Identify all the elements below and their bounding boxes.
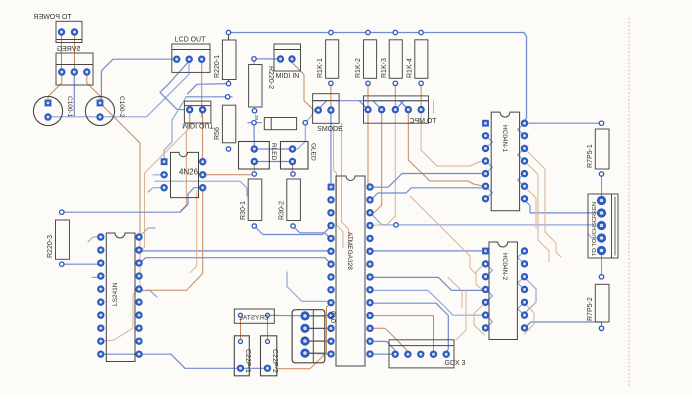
resistor R1K-3 (381, 30, 402, 85)
wire xtal-2 (267, 318, 269, 342)
connector TO MPC (364, 96, 437, 125)
svg-text:C100-1: C100-1 (66, 96, 73, 118)
wire at-hc2 (371, 250, 484, 252)
svg-text:R220-1: R220-1 (214, 55, 221, 78)
wire d1-left (248, 122, 261, 124)
svg-text:TO POWER: TO POWER (34, 14, 72, 21)
wire r220-3-t (62, 188, 201, 213)
wire at-10l (287, 272, 331, 301)
resistor R1K-1 (317, 30, 339, 85)
wire clo-3 (305, 340, 331, 342)
wire at-2r-hc1 (371, 186, 486, 200)
wire hc2-chevR1 (518, 277, 525, 290)
svg-text:TO MPC: TO MPC (409, 118, 436, 125)
IC U1 ATMEGA328 (327, 176, 373, 366)
capacitor C22P-2 (261, 336, 279, 376)
svg-text:R30-2: R30-2 (279, 201, 286, 220)
wire 4n26-l1 (153, 174, 164, 176)
wire d1-down (293, 123, 306, 149)
resistor R220-3 (47, 210, 70, 266)
svg-text:R30-1: R30-1 (240, 201, 247, 220)
wire hc2-chevR0 (518, 251, 525, 264)
wire hc2-tex1 (448, 277, 462, 308)
wire lcd2-diag (160, 61, 189, 110)
wire hc1-dn1 (525, 148, 562, 257)
wire r30-2-at (293, 226, 331, 239)
resistor R220-2 (249, 57, 274, 121)
svg-text:MIDI IN: MIDI IN (276, 73, 300, 80)
wire at-hc2b (371, 277, 485, 290)
resistor R56 (214, 95, 236, 152)
svg-text:C22P-1: C22P-1 (244, 349, 251, 373)
wire 4n26-l2 (148, 188, 164, 192)
svg-text:LCD OUT: LCD OUT (175, 37, 206, 44)
wire r30-1-at (254, 226, 330, 235)
wire at-in-red2 (342, 123, 349, 247)
wire hc1-chevR2 (518, 174, 525, 187)
wire r1k1-dn (330, 86, 332, 106)
svg-text:R1K-2: R1K-2 (355, 58, 362, 78)
connector SMODE (313, 94, 344, 133)
wire d1-right-smode (305, 110, 318, 123)
wire ls-s3 (139, 228, 155, 237)
wire ls-s2 (92, 276, 101, 278)
wire ls-at-1 (139, 250, 331, 252)
resistor R220-1 (214, 30, 236, 86)
wire hc1-chevR0 (518, 123, 525, 136)
svg-text:RLED: RLED (270, 143, 277, 161)
wire hc1-ts2 (525, 200, 601, 213)
resistor R7P5-2 (587, 275, 609, 331)
wire power-3 (48, 76, 62, 101)
IC U5 LS241N (97, 233, 143, 362)
connector J1 TO POWER (34, 14, 82, 43)
wire hc1-top (525, 122, 601, 124)
wire hc2-diag2 (476, 264, 485, 292)
wire ls-s1 (88, 237, 101, 242)
wire hc2-chevL1 (486, 290, 493, 303)
wire c100-ls (100, 103, 140, 237)
svg-text:TO TOUCHSCREEN: TO TOUCHSCREEN (592, 202, 598, 256)
wire hc2-chevL2 (486, 315, 493, 328)
wire led-top (254, 148, 292, 150)
wire hc1-chevL0 (486, 136, 493, 149)
wire 4n26-ls-red2 (190, 191, 197, 273)
resistor R7P5-1 (587, 121, 609, 176)
svg-text:4N26: 4N26 (179, 168, 199, 177)
wire midiin-2 (292, 63, 318, 110)
wire ls-at-2 (139, 258, 331, 265)
svg-text:GDX 3: GDX 3 (444, 360, 465, 367)
LED RLED (239, 142, 278, 170)
wire mout-1 (181, 113, 190, 212)
capacitor C100-1 (33, 96, 73, 126)
wire red-diag-hc2 (410, 196, 476, 274)
wire r220-2-a (253, 61, 255, 65)
wire r56-top (186, 96, 232, 98)
wire hc2-b1 (474, 303, 485, 335)
node via-mid (394, 223, 398, 227)
resistor R1K-4 (407, 30, 428, 85)
capacitor C100-2 (85, 96, 125, 126)
wire smode-rail (314, 100, 428, 102)
wire hc1-chevL1 (486, 161, 493, 174)
svg-text:HC04N-2: HC04N-2 (501, 253, 508, 280)
wire 4n26-in (182, 131, 186, 211)
svg-text:R1K-4: R1K-4 (407, 58, 414, 78)
wire mpc-s1 (359, 101, 368, 110)
connector TO TOUCHSCREEN (588, 194, 618, 258)
wire hc1-dn2 (525, 161, 550, 262)
wire at-gdx4 (371, 316, 434, 351)
wire smode-at1 (330, 114, 332, 184)
svg-text:HC04N-1: HC04N-1 (501, 125, 508, 152)
IC U4 HC04N-2 (482, 242, 528, 340)
svg-text:ATMEGA328: ATMEGA328 (346, 232, 353, 270)
wire d1-rled (253, 126, 255, 146)
wire clo-2 (305, 327, 331, 329)
svg-text:MIDI OUT: MIDI OUT (182, 122, 214, 129)
wire hc1-chevL2 (486, 186, 493, 199)
svg-text:5VREG: 5VREG (57, 46, 81, 53)
svg-text:R1K-3: R1K-3 (381, 58, 388, 78)
wire hc2-gdx (456, 290, 466, 340)
connector MIDI IN (274, 44, 301, 80)
svg-text:GLED: GLED (310, 143, 317, 161)
wire led-bot (254, 161, 292, 163)
wire mout-2 (202, 113, 204, 125)
IC U2 4N26 (160, 152, 206, 197)
wire ls-c22 (101, 354, 268, 368)
wire mpc3-dn (371, 113, 395, 226)
regulator 5VREG (56, 46, 93, 85)
svg-text:CRYSTAL: CRYSTAL (239, 315, 269, 322)
wire r220-3-b (62, 263, 101, 265)
wire hc1-in (371, 174, 486, 188)
capacitor C22P-1 (234, 336, 251, 376)
wire hc1-dn3 (525, 186, 537, 228)
wire 4n26-ls-red (146, 191, 203, 290)
wire r1k3-dn (394, 86, 396, 107)
wire mout-ls (140, 128, 190, 251)
wire clo-4 (305, 353, 331, 354)
wire mpc-s3 (395, 101, 404, 110)
wire 4n26-up (164, 97, 186, 158)
wire mpc2-dn (371, 113, 382, 213)
connector GDX 3 (389, 340, 466, 368)
wire power-4 (87, 76, 100, 101)
IC U3 HC04N-1 (482, 112, 528, 211)
wire ls-s4 (139, 291, 157, 298)
svg-text:R1K-1: R1K-1 (317, 58, 324, 78)
wire 5v-mid (73, 76, 75, 117)
svg-text:R7P5-2: R7P5-2 (587, 297, 594, 321)
wire at-gdx2 (371, 328, 408, 352)
connector CLO (292, 310, 335, 363)
wire at-3r (371, 213, 397, 225)
wire 4n26-bus (155, 181, 247, 196)
svg-text:R7P5-1: R7P5-1 (587, 144, 594, 168)
wire r7p51-dn (601, 177, 603, 198)
wire lcd1-c100 (101, 59, 176, 100)
wire r1k2-dn (367, 86, 369, 107)
wire power-1 (61, 36, 63, 70)
wire mpc1-dn (368, 113, 369, 186)
wire hc2-chevR2 (518, 302, 525, 315)
wire r7p52-up (601, 253, 603, 274)
wire r7p52-bt (525, 322, 602, 331)
wire mpc-x1 (433, 101, 435, 113)
connector MIDI OUT (182, 101, 214, 128)
wire r1k4-dn (420, 86, 422, 107)
wire smode-s1 (318, 101, 327, 110)
wire mpc-s4 (400, 101, 409, 110)
wire at-in-red1 (334, 125, 344, 248)
wire hc2-chevL0 (486, 264, 493, 277)
wire mpc5-dn (421, 113, 484, 166)
wire ls-red (104, 237, 140, 341)
wire gnd-bus (48, 63, 189, 117)
board edge (dotted) (628, 18, 630, 388)
wire rled-dn (253, 165, 255, 171)
wire gled-dn (292, 165, 294, 171)
svg-text:R220-2: R220-2 (267, 66, 274, 89)
wire lcd3-red (201, 63, 204, 159)
wire r220-2-b (254, 107, 256, 111)
svg-text:C22P-2: C22P-2 (271, 349, 278, 373)
wire hc2-diag (525, 277, 537, 313)
wire ts-4 (588, 234, 600, 238)
wire xtal-clo (268, 314, 331, 317)
svg-text:SMODE: SMODE (317, 126, 343, 133)
wire at-hc2c (371, 290, 485, 315)
wire at-gdx-b (371, 341, 395, 350)
connector LCD OUT (172, 37, 210, 73)
wire hc2-b2 (525, 303, 535, 334)
wire mpc-s2 (373, 101, 382, 110)
svg-text:LS241N: LS241N (112, 282, 119, 306)
wire top-rail (229, 33, 527, 122)
wire at-gdx5 (371, 303, 449, 352)
svg-text:CLO: CLO (329, 311, 335, 324)
LED GLED (281, 142, 317, 170)
diode D1 (252, 118, 308, 130)
resistor R1K-2 (355, 30, 377, 85)
crystal Q1 CRYSTAL (234, 309, 274, 323)
svg-text:C100-2: C100-2 (118, 96, 125, 118)
wire mpc4-dn (408, 113, 484, 186)
wire mid-rail (396, 224, 600, 227)
svg-text:20: 20 (254, 115, 259, 121)
wire at-gdx1 (371, 353, 392, 355)
wire power-2 (74, 36, 76, 70)
wire 4n26-r30 (203, 174, 254, 176)
wire xtal-1 (240, 318, 242, 342)
resistor R30-2 (279, 172, 301, 228)
svg-text:R220-3: R220-3 (47, 235, 54, 258)
svg-text:R56: R56 (214, 127, 221, 140)
wire r220-1-bot (188, 84, 229, 94)
wire hc1-chevR1 (518, 148, 525, 161)
resistor R30-1 (240, 172, 262, 228)
wire clo-red (278, 303, 331, 368)
wire midiin-1 (254, 58, 281, 60)
